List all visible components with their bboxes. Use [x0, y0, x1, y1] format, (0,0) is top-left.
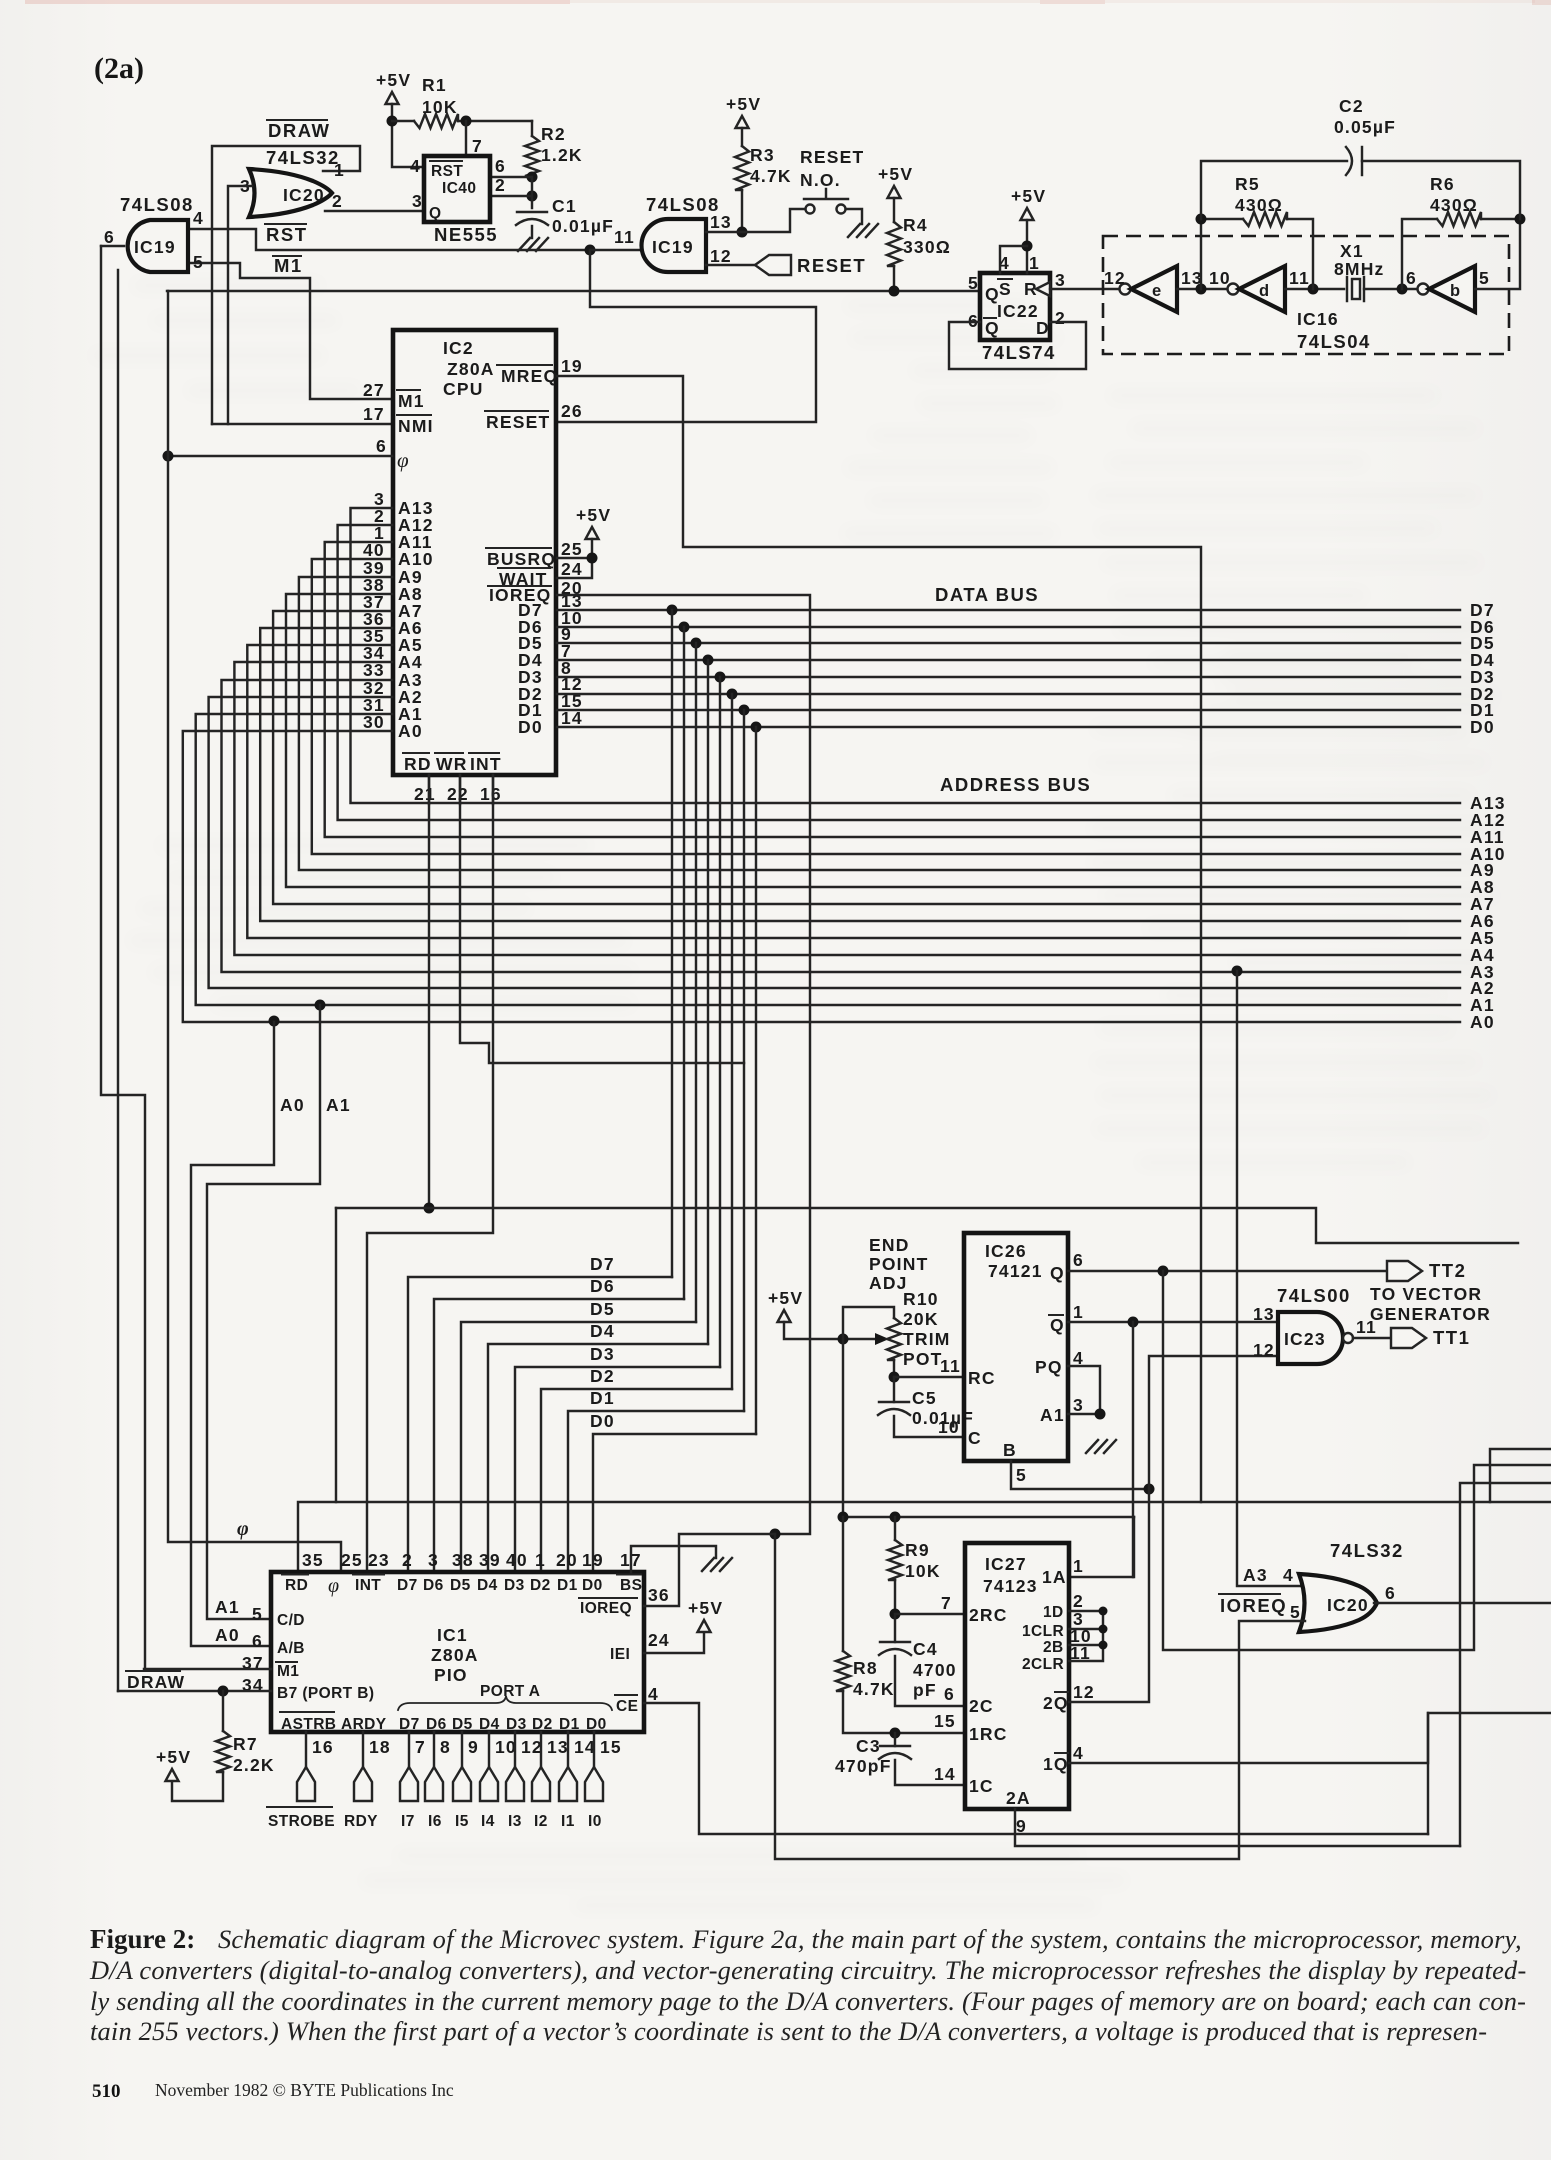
- wire data bus D7: [557, 609, 1460, 611]
- svg-text:5: 5: [1016, 1465, 1027, 1485]
- wire address bus A4: [234, 662, 1460, 955]
- svg-text:DRAW: DRAW: [127, 1672, 185, 1692]
- wire D1 drop to PIO: [743, 710, 745, 1411]
- wire IC19b pin12 to RESET tag: [706, 264, 755, 266]
- power +5V R7: [166, 1769, 179, 1781]
- wire 1Qbar pin4: [1069, 1713, 1551, 1763]
- svg-text:D4: D4: [590, 1321, 615, 1341]
- wire IOREQ down right: [557, 595, 810, 1534]
- svg-text:6: 6: [252, 1631, 263, 1651]
- wire RD branch to vector generator (steps down): [336, 1208, 1518, 1243]
- wire A0 to PIO A/B: [191, 1022, 274, 1646]
- svg-text:POINT: POINT: [869, 1254, 928, 1274]
- wire IC22 Qbar feedback loop to D: [949, 322, 1086, 369]
- svg-text:STROBE: STROBE: [268, 1813, 335, 1830]
- wire data bus D3: [557, 676, 1460, 678]
- resistor R8 4.7K: [842, 1517, 844, 1651]
- svg-text:R1: R1: [422, 75, 447, 95]
- svg-text:2A: 2A: [1006, 1788, 1031, 1808]
- svg-text:S: S: [999, 279, 1012, 299]
- svg-text:74121: 74121: [988, 1261, 1043, 1281]
- svg-text:13: 13: [1253, 1304, 1275, 1324]
- wire Q net down to right rail: [1163, 1271, 1551, 1650]
- wire address bus A8: [286, 594, 1460, 887]
- svg-text:5: 5: [1290, 1602, 1301, 1622]
- svg-text:D0: D0: [1470, 717, 1495, 737]
- svg-text:74LS08: 74LS08: [120, 194, 194, 215]
- svg-text:+5V: +5V: [576, 505, 611, 525]
- svg-text:φ: φ: [328, 1575, 339, 1597]
- svg-text:Q: Q: [429, 205, 441, 222]
- cpu IC2 Z80A: [393, 330, 556, 775]
- svg-text:D3: D3: [506, 1716, 527, 1733]
- svg-text:IC1: IC1: [437, 1625, 468, 1645]
- svg-text:2CLR: 2CLR: [1022, 1656, 1064, 1673]
- svg-text:D4: D4: [477, 1577, 498, 1594]
- wire IC20 output pin3 to NMI vertical: [228, 186, 252, 424]
- svg-text:430Ω: 430Ω: [1235, 195, 1283, 215]
- wire Qbar pin1 to NAND pin13: [1068, 1321, 1278, 1323]
- wire right bracket x=1490: [1490, 1449, 1551, 1502]
- wire D4 drop to PIO: [707, 660, 709, 1344]
- svg-text:PQ: PQ: [1035, 1357, 1063, 1377]
- svg-text:R9: R9: [905, 1540, 930, 1560]
- svg-text:7: 7: [941, 1593, 952, 1613]
- capacitor C4 4700pF: [894, 1614, 896, 1642]
- svg-text:19: 19: [582, 1550, 604, 1570]
- svg-text:D1: D1: [590, 1388, 615, 1408]
- svg-text:November 1982 © BYTE Publicati: November 1982 © BYTE Publications Inc: [155, 2080, 454, 2100]
- svg-text:C5: C5: [912, 1388, 937, 1408]
- svg-text:Z80A: Z80A: [447, 359, 495, 379]
- svg-text:26: 26: [561, 401, 583, 421]
- svg-text:10K: 10K: [905, 1561, 941, 1581]
- svg-text:4.7K: 4.7K: [853, 1679, 895, 1699]
- svg-text:POT: POT: [903, 1349, 943, 1369]
- svg-text:IEI: IEI: [610, 1646, 630, 1663]
- svg-text:1Q: 1Q: [1043, 1754, 1069, 1774]
- svg-text:I6: I6: [428, 1813, 442, 1830]
- svg-text:Q: Q: [985, 318, 1000, 338]
- wire address bus A2: [209, 697, 1460, 988]
- svg-text:20K: 20K: [903, 1309, 939, 1329]
- svg-text:WR: WR: [436, 754, 468, 774]
- svg-text:6: 6: [495, 156, 506, 176]
- wire e out to d: [1177, 288, 1227, 290]
- svg-text:+5V: +5V: [1011, 186, 1046, 206]
- svg-text:3: 3: [1055, 270, 1066, 290]
- power +5V / resistor R3 4.7K: [736, 116, 749, 128]
- wire R10 to RC pin 11: [894, 1376, 964, 1378]
- svg-text:C4: C4: [913, 1639, 938, 1659]
- svg-text:IC20: IC20: [283, 185, 325, 205]
- svg-text:19: 19: [561, 356, 583, 376]
- svg-text:RC: RC: [968, 1368, 996, 1388]
- svg-text:11: 11: [614, 227, 635, 247]
- svg-text:D4: D4: [479, 1716, 500, 1733]
- svg-text:M1: M1: [274, 255, 303, 276]
- wire 1A connect: [1069, 1517, 1134, 1577]
- svg-text:3: 3: [1073, 1395, 1084, 1415]
- junction A3 tap: [1232, 966, 1243, 977]
- svg-text:RD: RD: [404, 754, 432, 774]
- svg-text:RDY: RDY: [344, 1813, 378, 1830]
- resistor R2 1.2K: [531, 121, 533, 136]
- svg-text:2: 2: [402, 1550, 413, 1570]
- svg-text:16: 16: [312, 1737, 334, 1757]
- svg-text:0.01µF: 0.01µF: [552, 216, 614, 236]
- wire A1 to PIO C/D: [207, 1005, 320, 1619]
- trimpot R10 20K: [875, 1333, 889, 1345]
- svg-text:16: 16: [480, 784, 502, 804]
- svg-text:IC19: IC19: [652, 237, 694, 257]
- svg-text:D6: D6: [426, 1716, 447, 1733]
- svg-text:Q: Q: [1050, 1315, 1065, 1335]
- svg-text:38: 38: [452, 1550, 474, 1570]
- svg-text:b: b: [1450, 282, 1461, 300]
- wire D5 stair into PIO: [461, 1322, 696, 1572]
- svg-text:NMI: NMI: [398, 416, 434, 436]
- svg-text:9: 9: [1016, 1816, 1027, 1836]
- svg-text:D0: D0: [518, 717, 543, 737]
- svg-text:D1: D1: [559, 1716, 580, 1733]
- wire left rail from IC19a output to PIO M1: [101, 246, 145, 1669]
- svg-text:TT2: TT2: [1429, 1260, 1466, 1281]
- svg-text:R3: R3: [750, 145, 775, 165]
- svg-text:D3: D3: [504, 1577, 525, 1594]
- svg-text:8: 8: [440, 1737, 451, 1757]
- svg-text:I7: I7: [401, 1813, 415, 1830]
- svg-text:+5V: +5V: [768, 1288, 803, 1308]
- power +5V BUSRQ/WAIT: [586, 527, 599, 539]
- capacitor C3 470pF: [894, 1733, 896, 1746]
- wire IC19a output to left rail: [101, 245, 124, 247]
- svg-text:6: 6: [944, 1684, 955, 1704]
- junction A1 tap: [315, 1000, 326, 1011]
- connector TT1: [1391, 1328, 1426, 1348]
- svg-text:R6: R6: [1430, 174, 1455, 194]
- svg-text:ARDY: ARDY: [341, 1716, 387, 1733]
- svg-text:25: 25: [561, 539, 583, 559]
- svg-text:74LS74: 74LS74: [982, 342, 1056, 363]
- or-gate IC20 (74LS32): [249, 169, 332, 217]
- wire address bus A5: [247, 645, 1460, 938]
- wire IC19b pin13 to R3 and switch: [706, 209, 805, 232]
- svg-text:D3: D3: [590, 1344, 615, 1364]
- svg-text:6: 6: [376, 436, 387, 456]
- svg-text:4700: 4700: [913, 1660, 957, 1680]
- wire address bus A10: [312, 559, 1460, 854]
- svg-text:27: 27: [363, 380, 385, 400]
- wire address bus A3: [222, 680, 1461, 972]
- svg-text:B: B: [1003, 1440, 1017, 1460]
- wire R1 junction to NE555 pin7: [465, 121, 467, 156]
- wire D4 stair into PIO: [488, 1344, 708, 1572]
- wire DRAW rail down to PIO B7 line: [117, 270, 119, 1691]
- svg-text:BUSRQ: BUSRQ: [487, 549, 556, 569]
- bottom pin dividers: [429, 775, 493, 804]
- connector I6 pin 8: [433, 1732, 435, 1767]
- svg-text:C/D: C/D: [277, 1612, 305, 1629]
- svg-text:A4: A4: [398, 652, 423, 672]
- timer NE555 IC40: [424, 156, 490, 222]
- power +5V IEI: [698, 1620, 711, 1632]
- svg-text:11: 11: [940, 1356, 961, 1376]
- svg-text:17: 17: [363, 404, 385, 424]
- svg-text:PORT A: PORT A: [480, 1683, 540, 1700]
- svg-text:1: 1: [535, 1550, 546, 1570]
- svg-text:PIO: PIO: [434, 1665, 468, 1685]
- svg-text:I4: I4: [481, 1813, 495, 1830]
- svg-text:4: 4: [648, 1684, 659, 1704]
- wire address bus A9: [299, 577, 1460, 870]
- wire address bus A1: [196, 714, 1460, 1005]
- svg-text:TO VECTOR: TO VECTOR: [1370, 1284, 1482, 1304]
- svg-text:24: 24: [648, 1630, 670, 1650]
- wire right rail x=1460: [1460, 1483, 1551, 1846]
- wire address bus A6: [260, 628, 1460, 921]
- connector I7 pin 7: [408, 1732, 410, 1767]
- wire address bus A12: [338, 525, 1460, 820]
- svg-text:1CLR: 1CLR: [1022, 1623, 1064, 1640]
- svg-text:2C: 2C: [969, 1696, 994, 1716]
- power +5V for IC22 pins 4,1: [1021, 208, 1034, 220]
- svg-text:I1: I1: [561, 1813, 575, 1830]
- wire PQ pin4 to A1 pin3 and ground: [1068, 1366, 1100, 1414]
- connector I5 pin 9: [461, 1732, 463, 1767]
- svg-text:2RC: 2RC: [969, 1605, 1008, 1625]
- svg-text:5: 5: [1479, 268, 1490, 288]
- svg-text:74LS32: 74LS32: [1330, 1540, 1404, 1561]
- svg-text:15: 15: [600, 1737, 622, 1757]
- scan bleed-through texture: [92, 280, 1500, 1911]
- junction A0 tap: [269, 1016, 280, 1027]
- svg-text:13: 13: [710, 212, 732, 232]
- wire INT from CPU pin16 to PIO: [367, 775, 493, 1572]
- svg-text:tain 255 vectors.) When the fi: tain 255 vectors.) When the first part o…: [90, 2016, 1487, 2046]
- wire D0 stair into PIO: [593, 1434, 756, 1572]
- capacitor C2 0.05uF: [1201, 161, 1347, 219]
- svg-text:14: 14: [934, 1764, 956, 1784]
- power +5V for NE555: [386, 92, 399, 104]
- connector TT2: [1387, 1261, 1422, 1281]
- resistor R7 2.2K: [222, 1691, 224, 1731]
- svg-text:+5V: +5V: [376, 70, 411, 90]
- svg-text:18: 18: [369, 1737, 391, 1757]
- svg-text:2Q: 2Q: [1043, 1693, 1069, 1713]
- wire crystal to b: [1364, 288, 1417, 290]
- svg-text:+5V: +5V: [688, 1598, 723, 1618]
- svg-text:X1: X1: [1340, 241, 1364, 261]
- svg-text:ly sending all the coordinates: ly sending all the coordinates in the cu…: [90, 1986, 1526, 2016]
- svg-text:C2: C2: [1339, 96, 1364, 116]
- svg-text:IC20: IC20: [1327, 1595, 1369, 1615]
- svg-text:24: 24: [561, 559, 583, 579]
- wire BS pin17 to ground: [631, 1546, 716, 1572]
- svg-text:5: 5: [193, 252, 204, 272]
- svg-text:9: 9: [468, 1737, 479, 1757]
- svg-text:TRIM: TRIM: [903, 1329, 951, 1349]
- svg-text:Q: Q: [1050, 1263, 1065, 1283]
- svg-text:21: 21: [414, 784, 436, 804]
- svg-text:D2: D2: [530, 1577, 551, 1594]
- svg-text:74LS08: 74LS08: [646, 194, 720, 215]
- wire 1D/1CLR/2B/2CLR chain: [1069, 1611, 1103, 1661]
- svg-text:Schematic diagram of the Micro: Schematic diagram of the Microvec system…: [218, 1924, 1522, 1954]
- svg-text:IC2: IC2: [443, 338, 474, 358]
- svg-text:330Ω: 330Ω: [903, 237, 951, 257]
- svg-text:D0: D0: [582, 1577, 603, 1594]
- inverter d: [1228, 284, 1239, 295]
- svg-text:A0: A0: [215, 1625, 240, 1645]
- wire +5V rail to R4/IC22 (y=290): [167, 290, 979, 292]
- wire WR from CPU pin22: [460, 775, 744, 1063]
- wire IC22 pin3 to inverter e: [1050, 288, 1119, 290]
- svg-text:I3: I3: [508, 1813, 522, 1830]
- svg-text:4: 4: [193, 208, 204, 228]
- pio IC1 Z80A: [271, 1572, 644, 1732]
- svg-text:(2a): (2a): [94, 52, 144, 85]
- wire Qbar down to 1A rail: [1132, 1322, 1134, 1577]
- svg-text:NE555: NE555: [434, 224, 498, 245]
- svg-text:0.05µF: 0.05µF: [1334, 117, 1396, 137]
- wire D7 drop to PIO: [671, 610, 673, 1277]
- svg-text:12: 12: [521, 1737, 543, 1757]
- svg-text:+5V: +5V: [156, 1747, 191, 1767]
- one-shot IC26 74121: [964, 1233, 1068, 1461]
- svg-text:N.O.: N.O.: [800, 170, 841, 190]
- wire DRAW loop: IC20 pin1: [212, 146, 360, 424]
- wire MREQ to right vertical: [557, 376, 1201, 1502]
- svg-text:12: 12: [1073, 1682, 1095, 1702]
- svg-text:A10: A10: [398, 549, 434, 569]
- wire B net up to NAND pin12: [1149, 1356, 1278, 1489]
- wire D6 stair into PIO: [434, 1299, 684, 1572]
- and-gate IC19 a (74LS08): [128, 220, 188, 272]
- svg-text:A1: A1: [215, 1597, 240, 1617]
- svg-text:74123: 74123: [983, 1576, 1038, 1596]
- clock arrow on R pin: [1036, 282, 1050, 296]
- one-shot IC27 74123: [965, 1543, 1069, 1809]
- svg-text:IC40: IC40: [442, 180, 476, 197]
- svg-text:5: 5: [252, 1604, 263, 1624]
- svg-text:2: 2: [332, 191, 343, 211]
- ground for C1: [518, 238, 548, 251]
- connector STROBE pin 16: [305, 1732, 307, 1767]
- svg-text:3: 3: [428, 1550, 439, 1570]
- wire M1 net: IC19a pin5 to CPU M1: [187, 263, 392, 399]
- svg-text:74LS04: 74LS04: [1297, 331, 1371, 352]
- svg-text:10K: 10K: [422, 97, 458, 117]
- svg-text:12: 12: [1253, 1340, 1275, 1360]
- svg-text:RST: RST: [266, 224, 308, 245]
- svg-text:430Ω: 430Ω: [1430, 195, 1478, 215]
- wire IC20b output: [1374, 1602, 1551, 1604]
- resistor R9 10K: [894, 1517, 896, 1540]
- wire d out to crystal: [1285, 288, 1344, 290]
- svg-text:TT1: TT1: [1433, 1327, 1470, 1348]
- svg-text:φ: φ: [237, 1518, 250, 1540]
- svg-text:4.7K: 4.7K: [750, 166, 792, 186]
- flip-flop IC22 74LS74: [980, 273, 1050, 340]
- svg-text:6: 6: [104, 227, 115, 247]
- dashed box IC16 74LS04: [1103, 236, 1509, 354]
- svg-text:ADDRESS BUS: ADDRESS BUS: [940, 774, 1091, 795]
- svg-text:B7 (PORT B): B7 (PORT B): [277, 1685, 374, 1702]
- crystal X1 8MHz: [1347, 277, 1364, 301]
- svg-text:2: 2: [495, 175, 506, 195]
- svg-text:11: 11: [1289, 268, 1310, 288]
- svg-text:DRAW: DRAW: [268, 120, 331, 141]
- svg-text:1: 1: [1073, 1302, 1084, 1322]
- svg-text:D7: D7: [397, 1577, 418, 1594]
- svg-text:12: 12: [710, 246, 732, 266]
- connector I4 pin 10: [488, 1732, 490, 1767]
- svg-text:35: 35: [302, 1550, 324, 1570]
- connector RDY pin 18: [362, 1732, 364, 1767]
- wire Q pin6 to TT2: [1068, 1270, 1387, 1272]
- svg-text:R7: R7: [233, 1734, 258, 1754]
- svg-text:Figure 2:: Figure 2:: [90, 1924, 195, 1954]
- svg-text:2: 2: [1073, 1591, 1084, 1611]
- svg-text:pF: pF: [913, 1680, 937, 1700]
- svg-text:IC26: IC26: [985, 1241, 1027, 1261]
- svg-text:d: d: [1259, 282, 1270, 300]
- svg-text:INT: INT: [355, 1577, 381, 1594]
- svg-text:D0: D0: [590, 1411, 615, 1431]
- svg-text:13: 13: [547, 1737, 569, 1757]
- wire address bus A7: [273, 611, 1460, 904]
- svg-text:5: 5: [968, 273, 979, 293]
- svg-text:D7: D7: [399, 1716, 420, 1733]
- svg-text:10: 10: [938, 1417, 960, 1437]
- svg-text:3: 3: [412, 191, 423, 211]
- svg-text:12: 12: [1104, 268, 1126, 288]
- svg-text:R10: R10: [903, 1289, 939, 1309]
- svg-text:R2: R2: [541, 124, 566, 144]
- wire data bus D2: [557, 693, 1460, 695]
- svg-text:D5: D5: [452, 1716, 473, 1733]
- svg-text:40: 40: [506, 1550, 528, 1570]
- svg-text:A0: A0: [1470, 1012, 1495, 1032]
- svg-text:20: 20: [556, 1550, 578, 1570]
- wire 2Qbar pin12: [1069, 1489, 1149, 1702]
- svg-text:+5V: +5V: [878, 164, 913, 184]
- svg-text:D7: D7: [590, 1254, 615, 1274]
- svg-text:22: 22: [447, 784, 469, 804]
- svg-text:I0: I0: [588, 1813, 602, 1830]
- wire B pin5: [1011, 1461, 1149, 1489]
- svg-text:CE: CE: [616, 1698, 638, 1715]
- svg-text:15: 15: [934, 1711, 956, 1731]
- wire address bus A11: [325, 542, 1460, 837]
- wire NAND out to TT1: [1353, 1337, 1391, 1339]
- svg-text:A/B: A/B: [277, 1640, 305, 1657]
- wire 2RC pin7: [895, 1613, 965, 1615]
- svg-text:IC16: IC16: [1297, 309, 1339, 329]
- wire D0 drop to PIO: [755, 727, 757, 1434]
- wire IOREQ bottom rail: [775, 1534, 1305, 1859]
- svg-text:A3: A3: [1243, 1565, 1268, 1585]
- svg-text:470pF: 470pF: [835, 1756, 892, 1776]
- svg-text:D/A converters (digital-to-ana: D/A converters (digital-to-analog conver…: [89, 1955, 1526, 1985]
- inverter e: [1120, 284, 1131, 295]
- svg-text:φ: φ: [397, 448, 409, 472]
- wire D3 drop to PIO: [719, 677, 721, 1367]
- svg-text:1A: 1A: [1042, 1567, 1067, 1587]
- svg-text:IC27: IC27: [985, 1554, 1027, 1574]
- svg-text:INT: INT: [470, 754, 502, 774]
